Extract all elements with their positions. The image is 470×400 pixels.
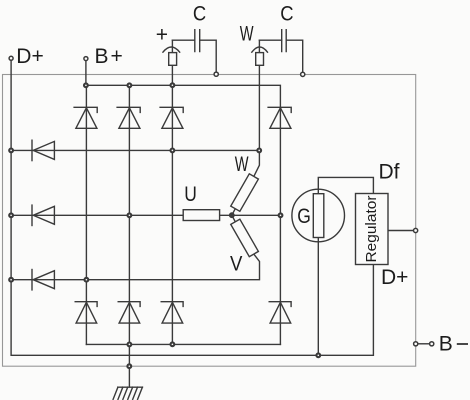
junction star point [229,213,234,218]
svg-text:G: G [297,205,311,228]
diode D2 top row col2 (zener) [117,107,140,128]
svg-text:W: W [235,153,249,176]
junction row1 W plug drop [257,149,261,153]
diode D10 exciter row 2 [32,205,54,225]
svg-text:B: B [95,45,109,68]
wire D+ rail left/bottom to regulator bottom pin [11,60,373,355]
diode D4 top row col4 (zener) [268,107,291,128]
rotor field winding bar [313,194,324,238]
svg-text:V: V [230,252,242,275]
wire C2 left lead [259,39,281,41]
connector plug B+ (arc and pin) [163,47,180,52]
wire top B+ bus and phase column 4 [86,85,281,344]
junction row1 col3 [171,149,175,153]
stator winding W [231,174,259,211]
svg-text:Df: Df [379,161,400,184]
wire exciter row 1 (W phase to D+) [11,149,259,151]
case frame [3,75,416,367]
diode D1 top row col1 (zener) [74,107,97,128]
junction bottom bus col2 [127,343,131,347]
wire rotor bottom to D+ line [317,238,319,356]
terminal C1 on case [214,72,218,76]
diode D5 bottom row col1 (zener) [75,302,97,323]
terminal D+ [9,56,13,60]
wire star point stub to W winding [232,209,236,216]
wire star point stub to V winding [232,215,236,222]
wire C1 left lead [172,39,194,41]
wire exciter row 2 (U phase to D+) [11,214,280,216]
diode D8 bottom row col4 (zener) [269,302,291,323]
junction bus col1 [84,83,88,87]
svg-text:U: U [184,183,197,206]
junction row2 col4 [279,213,283,217]
terminal B+ [84,57,88,61]
svg-text:Regulator: Regulator [364,195,380,262]
junction rail row2 [9,213,13,217]
rotor generator circle G [292,189,345,242]
junction bottom bus col3 [171,342,175,346]
svg-text:B: B [439,333,453,356]
wire rectifier column 2 with ground drop [128,85,130,387]
junction rotor D+ line [316,353,320,357]
stator winding U [183,210,219,221]
diode D9 exciter row 1 [32,140,54,160]
wire B- terminal stub [418,343,430,345]
wire bottom negative bus [86,343,280,345]
junction rail row1 [9,149,13,153]
stator winding V [231,219,259,256]
junction row2 col2 [127,213,131,217]
junction row3 col1 [85,278,89,282]
svg-text:D+: D+ [381,266,408,289]
wire rotor top to regulator Df pin [318,177,373,193]
wire B+ terminal drop [85,61,87,86]
regulator box U1 [356,194,389,265]
terminal B- on case [414,342,418,346]
diode D6 bottom row col2 (zener) [118,302,140,323]
junction rail row3 [9,278,13,282]
svg-text:+: + [111,45,123,68]
ground symbol [113,387,142,399]
wire rectifier column 3 with capacitor C1 branch [171,40,173,344]
svg-text:C: C [193,2,206,25]
junction bus col3 [171,83,175,87]
wire rectifier column 1 [85,85,87,344]
capacitor C1 plates [195,30,200,52]
diode D11 exciter row 3 [32,270,54,290]
svg-text:C: C [280,2,293,25]
svg-text:+: + [156,24,168,47]
junction ground on case [127,364,131,368]
svg-text:D+: D+ [16,45,43,68]
terminal C2 on case [301,72,305,76]
terminal regulator case [414,228,418,232]
wire W terminal plug drop to phase W [254,40,260,176]
connector plug W (arc and pin) [252,47,268,52]
wire exciter row 3 (V phase to D+) [11,254,259,280]
wire C1 right lead to case [200,40,217,72]
junction bus col2 [127,83,131,87]
diode D7 bottom row col3 (zener) [161,302,183,323]
terminal B- outer [430,342,434,346]
capacitor C2 plates [282,30,287,52]
wire regulator right pin to case [388,230,414,232]
diode D3 top row col3 (zener) [160,107,183,128]
wire C2 right lead to case [286,40,303,72]
svg-text:W: W [240,23,254,46]
